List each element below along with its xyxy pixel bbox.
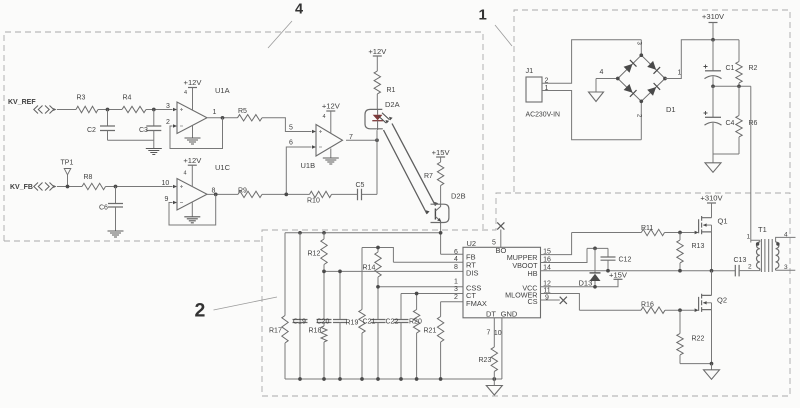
svg-text:R22: R22 [692, 336, 705, 343]
capacitor (DIS column) [339, 271, 341, 319]
svg-text:R1: R1 [387, 87, 396, 94]
resistor R22 [679, 310, 681, 333]
svg-text:D13: D13 [579, 279, 593, 288]
svg-text:9: 9 [545, 295, 549, 302]
svg-text:FMAX: FMAX [466, 299, 487, 308]
svg-text:R7: R7 [424, 173, 433, 180]
svg-text:C20: C20 [317, 319, 330, 326]
svg-text:+12V: +12V [322, 102, 341, 111]
resistor R18 [323, 323, 325, 327]
resistor R5 [238, 115, 262, 121]
svg-text:T1: T1 [758, 225, 767, 234]
node bus/C19 [298, 231, 302, 235]
node Q2 source [710, 362, 714, 366]
transformer T1 secondary winding [776, 242, 779, 270]
svg-text:+12V: +12V [183, 156, 202, 165]
wire T1 pin4 [776, 237, 796, 242]
ground at bridge pin4 [589, 92, 604, 102]
node bottom bus x440 [439, 377, 443, 381]
node D13 anode/VCC [593, 285, 597, 289]
svg-text:U1C: U1C [215, 163, 231, 172]
wire T1 pin3 [776, 269, 796, 271]
svg-text:2: 2 [454, 294, 458, 301]
ground under R23 [493, 379, 495, 386]
svg-text:C6: C6 [99, 205, 108, 212]
svg-text:DT: DT [486, 309, 496, 318]
svg-text:+310V: +310V [702, 12, 725, 21]
svg-text:6: 6 [289, 140, 293, 147]
svg-text:CS: CS [528, 297, 538, 306]
IC U2 body [463, 247, 541, 317]
svg-text:2: 2 [748, 263, 752, 270]
resistor R8 [82, 183, 106, 189]
ground under C6 [108, 231, 124, 237]
svg-text:3: 3 [454, 286, 458, 293]
svg-text:1: 1 [454, 279, 458, 286]
svg-text:R5: R5 [238, 108, 247, 115]
wire +310V rail to T1 pin1 [750, 86, 752, 242]
wire D2B emitter to FB [441, 224, 463, 254]
section 1 dashed boundary [514, 10, 790, 192]
resistor R6 [738, 86, 740, 115]
svg-text:C3: C3 [139, 127, 148, 134]
bridge diode B-R [647, 87, 656, 96]
node C6 tap [114, 185, 118, 189]
wire R3 to R4 [98, 109, 122, 111]
svg-text:TP1: TP1 [61, 160, 74, 167]
svg-text:R9: R9 [238, 188, 247, 195]
svg-text:R2: R2 [749, 65, 758, 72]
capacitor C3 [153, 110, 155, 127]
resistor R12 [323, 233, 325, 239]
node bottom bus x340 [338, 377, 342, 381]
capacitor C22 [400, 294, 402, 320]
wire DIS [324, 270, 463, 272]
optocoupler LED D2A [365, 109, 383, 128]
node DIS/R12 column [322, 270, 326, 274]
wire U1A output [208, 117, 238, 119]
svg-text:R19: R19 [346, 320, 359, 327]
svg-text:R23: R23 [479, 357, 492, 364]
ground under C3 [146, 149, 162, 155]
wire R1 to D2A [376, 94, 378, 109]
node U1C feedback tap [214, 193, 218, 197]
pointer line for label 2 [214, 297, 278, 310]
svg-text:R12: R12 [308, 251, 321, 258]
svg-text:+12V: +12V [184, 78, 203, 87]
svg-text:5: 5 [492, 240, 496, 247]
svg-text:R4: R4 [123, 95, 132, 102]
capacitor C1 (polarized) [712, 40, 714, 71]
svg-text:1: 1 [479, 7, 487, 24]
resistor R23 [491, 347, 497, 371]
wire HB pin14 / switch rail [541, 270, 736, 272]
resistor R7 [437, 162, 443, 186]
svg-text:U1B: U1B [301, 161, 316, 170]
svg-text:Q1: Q1 [718, 217, 728, 226]
wire DT pin7 [493, 318, 495, 347]
svg-text:1: 1 [747, 233, 751, 240]
wire MLOWER pin11 [541, 294, 580, 311]
node bottom bus x324 [322, 377, 326, 381]
svg-text:C1: C1 [726, 65, 735, 72]
op-amp U1A [177, 102, 207, 134]
bridge vertex nodes [639, 53, 643, 57]
svg-text:GND: GND [501, 309, 518, 318]
svg-text:R16: R16 [641, 302, 654, 309]
resistor R4 [122, 106, 146, 112]
bridge diode T-R [647, 61, 656, 70]
ground under U1A [192, 126, 194, 139]
wire R11 gate feed [572, 232, 642, 234]
svg-text:R11: R11 [641, 225, 653, 232]
wire C4/R6 bottom link [713, 153, 739, 155]
node switch rail [710, 269, 714, 273]
wire R16 to Q2 gate [665, 309, 695, 311]
wire D2A to node [376, 130, 378, 140]
capacitor C13 [734, 270, 736, 272]
resistor R13 [679, 233, 681, 241]
node bottom bus x401 [399, 377, 403, 381]
svg-text:R3: R3 [77, 95, 86, 102]
wire VBOOT pin16 [541, 248, 588, 262]
wire J1 pin2 to bridge top [542, 40, 641, 84]
svg-text:C22: C22 [386, 319, 399, 326]
ground under Q2 [711, 364, 713, 370]
svg-text:C19: C19 [293, 319, 306, 326]
svg-text:D1: D1 [666, 105, 676, 114]
node bottom bus x494 [492, 377, 496, 381]
svg-text:Q2: Q2 [717, 296, 727, 305]
wire CT [401, 293, 463, 295]
svg-text:C13: C13 [734, 257, 747, 264]
resistor R10 [310, 191, 332, 197]
svg-text:2: 2 [195, 300, 206, 322]
svg-text:J1: J1 [526, 66, 534, 75]
wire U1C feedback [169, 194, 216, 225]
wire R8 to U1C pin10 [106, 186, 173, 188]
node RT/R14 [376, 246, 380, 250]
node R2 bottom [737, 84, 741, 88]
node VBOOT/D13 [593, 247, 597, 251]
svg-text:2: 2 [166, 119, 170, 126]
wire T1 pin1 jog [751, 240, 760, 242]
wire R4 to U1A pin3 [146, 109, 173, 111]
svg-text:1: 1 [213, 109, 217, 116]
svg-text:10: 10 [162, 180, 170, 187]
svg-text:R6: R6 [749, 120, 758, 127]
svg-text:R18: R18 [309, 328, 322, 335]
op-amp U1C [177, 179, 207, 211]
svg-text:4: 4 [295, 2, 303, 18]
wire R11 to Q1 gate [665, 232, 695, 234]
svg-text:R8: R8 [84, 174, 93, 181]
wire Q2 source [711, 310, 713, 364]
resistor R14 [377, 248, 379, 253]
svg-text:D2B: D2B [451, 192, 466, 201]
bridge diode L-T [624, 64, 633, 73]
wire bottom bus [285, 378, 502, 380]
svg-text:+15V: +15V [432, 148, 451, 157]
bridge diode L-B [624, 84, 633, 93]
svg-text:U2: U2 [467, 239, 477, 248]
capacitor C19 [299, 233, 301, 320]
node C1 bottom [711, 84, 715, 88]
node U1A output [221, 116, 225, 120]
svg-text:+15V: +15V [609, 271, 628, 280]
svg-text:4: 4 [600, 69, 604, 76]
svg-text:4: 4 [184, 90, 187, 96]
svg-text:7: 7 [487, 330, 491, 337]
capacitor C4 (polarized) [712, 86, 714, 117]
transformer T1 core [761, 239, 772, 272]
svg-text:10: 10 [494, 330, 502, 337]
transistor Q1 [699, 216, 712, 234]
svg-text:KV_REF: KV_REF [8, 99, 36, 106]
resistor R2 [738, 40, 740, 62]
svg-text:U1A: U1A [215, 86, 230, 95]
svg-text:5: 5 [289, 125, 293, 132]
svg-text:R21: R21 [424, 328, 437, 335]
svg-text:+12V: +12V [368, 47, 387, 56]
wire C1/R2 mid link [713, 85, 751, 87]
transistor Q2 [699, 294, 712, 312]
section 2 dashed boundary [262, 193, 790, 396]
svg-text:BO: BO [496, 246, 507, 255]
wire CS pin9 [541, 299, 560, 301]
no-connect X on BO [497, 222, 504, 229]
node C2 tap [106, 108, 110, 112]
wire RT link [362, 248, 463, 263]
svg-text:HB: HB [528, 269, 538, 278]
op-amp U1B [316, 125, 343, 157]
svg-text:KV_FB: KV_FB [10, 184, 33, 191]
node R13/rail [678, 269, 682, 273]
resistor R3 [76, 106, 98, 112]
wire U1B pin6 tap [286, 147, 311, 194]
resistor R17 [284, 233, 286, 316]
node bottom bus x378 [376, 377, 380, 381]
no-connect X on CS [560, 297, 567, 304]
capacitor C20 [317, 320, 332, 323]
resistor R9 [238, 191, 262, 197]
capacitor C5 [358, 189, 362, 201]
diode D13 (bootstrap) [594, 248, 596, 272]
wire J1 pin1 to bridge bottom [542, 91, 641, 140]
wire BO pin [500, 230, 502, 248]
svg-text:DIS: DIS [466, 269, 479, 278]
svg-text:C4: C4 [726, 120, 735, 127]
wire C5 to node [362, 140, 378, 194]
wire KV_REF to R3 [57, 109, 76, 111]
svg-text:R20: R20 [409, 319, 422, 326]
resistor R11 [641, 229, 664, 235]
capacitor C2 [107, 110, 109, 127]
resistor R20 [416, 294, 418, 310]
svg-text:4: 4 [184, 171, 187, 177]
node R9/R10/pin6 [284, 193, 288, 197]
resistor R19 [361, 248, 363, 310]
svg-text:R10: R10 [307, 198, 320, 205]
wire U1A feedback [170, 118, 223, 149]
node Q1 gate/R13 [678, 231, 682, 235]
svg-text:9: 9 [165, 196, 169, 203]
wire FB top bus [285, 232, 441, 234]
svg-text:4: 4 [323, 114, 326, 120]
node C3 tap [152, 108, 156, 112]
optocoupler transistor D2B [431, 204, 449, 222]
wire R5 to U1B pin5 [262, 118, 312, 132]
wire GND pin10 [501, 318, 503, 379]
wire U1B output [346, 139, 377, 141]
node Q2 gate/R22 [678, 308, 682, 312]
capacitor C6 [115, 187, 117, 204]
svg-text:6: 6 [454, 249, 458, 256]
wire Q2 drain [711, 271, 713, 296]
resistor R1 [374, 71, 380, 94]
wire bridge to +310V rail [665, 40, 739, 79]
svg-text:R13: R13 [692, 243, 705, 250]
node bottom bus x362 [360, 377, 364, 381]
bridge rectifier D1 frame [618, 55, 665, 101]
wire R9 to R10 [262, 193, 307, 195]
wire R7 to D2B [440, 186, 442, 205]
node bus/FB riser [439, 231, 443, 235]
svg-text:R17: R17 [269, 328, 282, 335]
wire FMAX [441, 301, 463, 303]
node TP1 [66, 185, 70, 189]
wire R16 gate feed [579, 309, 641, 311]
wire MUPPER pin15 [541, 233, 572, 255]
capacitor C12 [607, 248, 609, 257]
wire VCC pin12 [541, 279, 619, 287]
svg-text:D2A: D2A [385, 100, 400, 109]
resistor R21 [440, 302, 442, 317]
ground (section 1) [712, 154, 714, 163]
wire bridge left to ground [596, 78, 618, 80]
svg-text:3: 3 [166, 103, 170, 110]
wire KV_FB to R8 [57, 186, 82, 188]
node bottom bus x300 [298, 377, 302, 381]
ground under U1B [330, 149, 332, 159]
capacitor C21 [371, 320, 386, 323]
node bottom bus x416 [415, 377, 419, 381]
wire Q1 drain [711, 203, 713, 218]
svg-text:AC230V-IN: AC230V-IN [526, 111, 560, 118]
node pin7/D2A/C5 [375, 138, 379, 142]
pointer line for label 1 [495, 25, 512, 46]
svg-text:C5: C5 [356, 182, 365, 189]
node +310V tap [711, 38, 715, 42]
wire R22 to Q2 source [680, 363, 712, 365]
wire VBOOT link [587, 247, 608, 249]
ground under U1C [191, 202, 193, 217]
wire CSS [378, 286, 463, 288]
node DIS/C column [338, 270, 342, 274]
node CSS/R14 column [376, 285, 380, 289]
pointer line for label 4 [268, 21, 292, 48]
wire Q1 source [711, 232, 713, 271]
svg-text:4: 4 [454, 256, 458, 263]
svg-text:R14: R14 [363, 265, 376, 272]
svg-text:8: 8 [454, 264, 458, 271]
resistor R16 [641, 307, 665, 313]
wire C2-C3 bottom [108, 139, 154, 141]
svg-text:+310V: +310V [700, 193, 723, 202]
T1 secondary polarity dot [776, 242, 779, 245]
wire C13 to T1 [739, 270, 760, 272]
svg-text:C12: C12 [619, 257, 632, 264]
node bus/R12 [322, 231, 326, 235]
node CT/R20 [415, 292, 419, 296]
T1 primary polarity dot [756, 242, 759, 245]
transformer T1 primary winding [756, 242, 759, 271]
section 4 dashed boundary [4, 32, 483, 241]
wire U1C output [207, 193, 238, 195]
node C12/rail [606, 269, 610, 273]
svg-text:C2: C2 [87, 127, 96, 134]
optical coupling lines [392, 124, 436, 206]
svg-text:C21: C21 [363, 319, 376, 326]
